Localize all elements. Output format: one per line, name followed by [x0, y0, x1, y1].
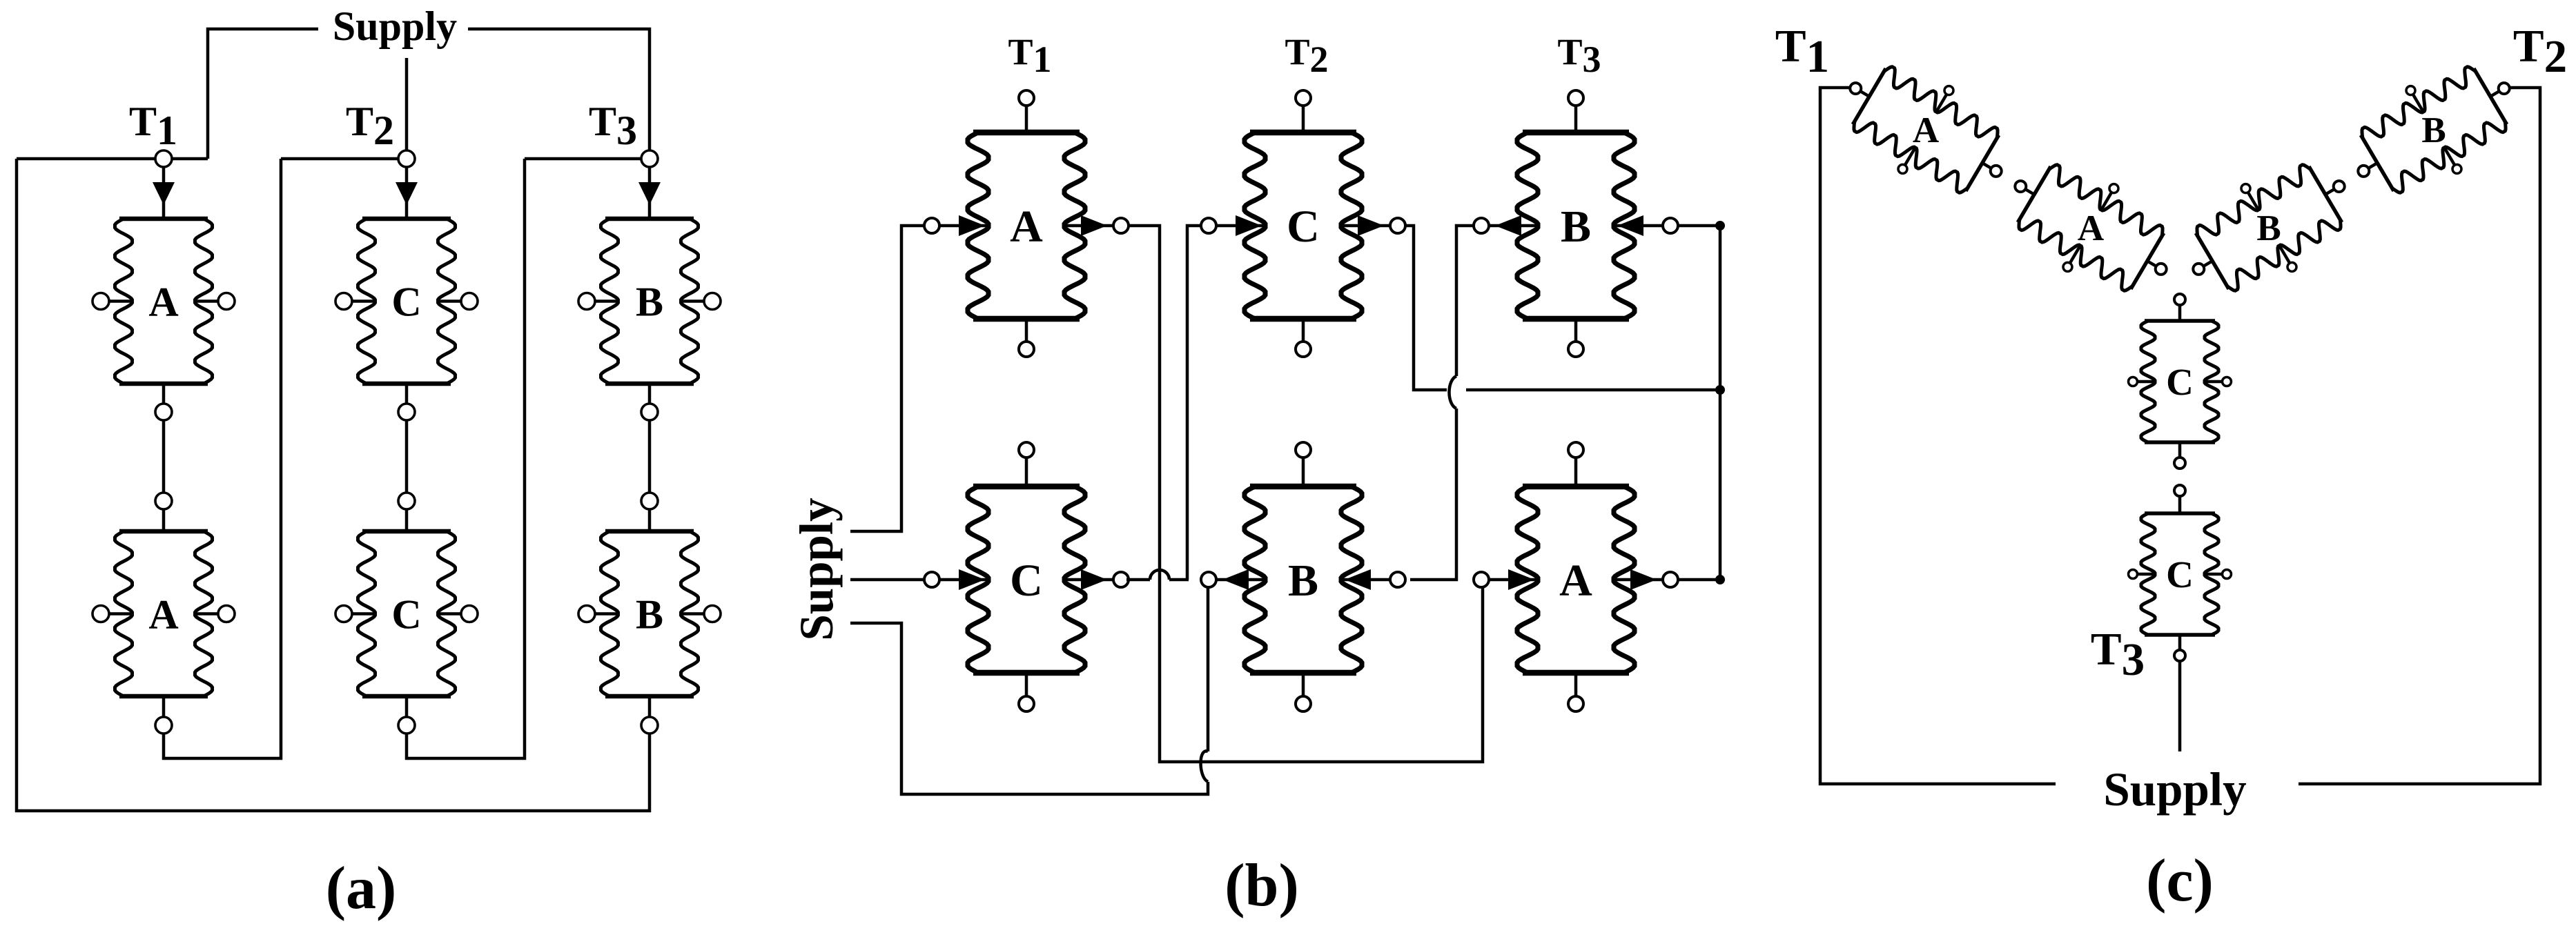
stub above bottom coil (b) col2	[1302, 457, 1305, 486]
winding A lower (a)	[119, 529, 208, 534]
junction dot middle (b)	[1715, 385, 1725, 395]
stub T1 (b)	[1025, 106, 1028, 132]
winding B top (b)	[1523, 130, 1629, 136]
node circle upper (a) col1	[155, 404, 172, 420]
svg-text:A: A	[148, 279, 178, 325]
svg-text:C: C	[1287, 201, 1320, 252]
winding C lower (c)	[2145, 511, 2215, 515]
wire T1 corner (c)	[1820, 88, 2056, 784]
node circle upper (a) col3	[641, 404, 658, 420]
winding C upper (a)	[362, 217, 451, 222]
wire supply-left to T1 drop (a)	[208, 29, 318, 159]
wire C-bottom right tap to riser (b)	[1126, 578, 1150, 582]
winding B inner (c)	[2182, 154, 2355, 302]
stub above C2 (c)	[2178, 496, 2182, 513]
open circle above bottom coil (b) col3	[1568, 442, 1583, 457]
svg-text:(c): (c)	[2146, 847, 2214, 914]
arrow T1 (a)	[153, 182, 175, 205]
bottom circle (a) col1	[155, 717, 172, 734]
supply stub bottom (b)	[850, 623, 1208, 794]
winding C lower (a)	[362, 529, 451, 534]
stub above bottom coil (b) col3	[1574, 457, 1578, 486]
supply stub middle (b)	[850, 578, 924, 582]
hop at 2110,565 (b)	[1450, 376, 1457, 409]
wire B-top left down (b)	[1456, 226, 1474, 376]
wire B-bottom left tap riser (b)	[1207, 587, 1210, 751]
node circle lower (a) col2	[398, 493, 415, 509]
central node circle (c)	[2174, 294, 2185, 305]
wire 565 to bus (b)	[1466, 388, 1720, 392]
wire between nodes (a) col3	[648, 420, 652, 493]
wire T3 to coil (a)	[648, 167, 652, 219]
wire T2 to coil (a)	[405, 167, 409, 219]
wire node to coil (a) col2	[405, 509, 409, 531]
winding A upper (a)	[119, 217, 208, 222]
wire col1 bottom to T2 (a)	[164, 159, 281, 758]
wire A-bottom right to bus (b)	[1679, 578, 1720, 582]
svg-text:A: A	[148, 592, 178, 638]
terminal T3 circle (a)	[641, 150, 658, 167]
arrow T3 (a)	[638, 182, 661, 205]
open circle below top coil (b) col3	[1568, 342, 1583, 357]
bottom circle (a) col3	[641, 717, 658, 734]
svg-text:C: C	[1010, 555, 1043, 606]
winding C upper (c)	[2145, 319, 2215, 323]
svg-text:B: B	[1288, 555, 1318, 606]
wire coil to bottom circle (a) col3	[648, 696, 652, 717]
wire between nodes (a) col2	[405, 420, 409, 493]
winding B bottom (b)	[1250, 484, 1356, 490]
svg-text:B: B	[1561, 201, 1591, 252]
bottom circle (a) col2	[398, 717, 415, 734]
winding A inner (c)	[2004, 154, 2177, 302]
open circle above bottom coil (b) col2	[1296, 442, 1311, 457]
wire node to coil (a) col3	[648, 509, 652, 531]
junction dot top (b)	[1715, 221, 1725, 230]
stub below bottom coil (b) col2	[1302, 673, 1305, 696]
svg-text:C: C	[391, 279, 421, 325]
hop at 1750,1104 (b)	[1201, 751, 1209, 782]
svg-text:C: C	[2166, 361, 2194, 403]
wire C-top left down (b)	[1187, 226, 1201, 580]
winding B lower (a)	[605, 529, 694, 534]
winding A outer (c)	[1839, 56, 2012, 204]
stub below top coil (b) col1	[1025, 319, 1028, 342]
wire col2 bottom to T3 (a)	[407, 159, 525, 758]
winding C bottom (b)	[973, 484, 1080, 490]
wire supply to T2 drop (a)	[405, 58, 409, 152]
stub to C1 (c)	[2178, 305, 2182, 321]
open circle below top coil (b) col1	[1019, 342, 1034, 357]
node circle lower (a) col3	[641, 493, 658, 509]
stub below C1 (c)	[2178, 442, 2182, 457]
open circle bottom (b) col3	[1568, 696, 1583, 711]
svg-text:Supply: Supply	[333, 3, 457, 49]
wire col3 bottom to T1 (a)	[17, 159, 650, 811]
terminal T1 circle (b)	[1019, 90, 1034, 106]
terminal T1 circle (a)	[155, 150, 172, 167]
node T1 line (a)	[17, 157, 208, 161]
stub T3 (b)	[1574, 106, 1578, 132]
open circle bottom (b) col2	[1296, 696, 1311, 711]
stub above bottom coil (b) col1	[1025, 457, 1028, 486]
svg-text:A: A	[1010, 201, 1043, 252]
wire node to coil (a) col1	[162, 509, 166, 531]
wire B-top right to bus (b)	[1678, 224, 1720, 228]
terminal T2 circle (b)	[1296, 90, 1311, 106]
wire coil to bottom circle (a) col1	[162, 696, 166, 717]
svg-text:Supply: Supply	[2103, 763, 2246, 816]
svg-text:C: C	[391, 592, 421, 638]
winding B outer (c)	[2347, 56, 2520, 204]
svg-text:A: A	[1559, 555, 1592, 606]
wire coil to node (a) col1	[162, 384, 166, 404]
svg-text:B: B	[636, 279, 663, 325]
circle above C2 (c)	[2174, 485, 2185, 496]
node circle lower (a) col1	[155, 493, 172, 509]
svg-text:A: A	[2078, 208, 2104, 248]
wire C-top right to bus (b)	[1405, 226, 1447, 390]
wire T3 down (c)	[2178, 661, 2182, 751]
svg-text:B: B	[2256, 208, 2281, 248]
node T2 line (a)	[281, 157, 407, 161]
wire coil to node (a) col3	[648, 384, 652, 404]
wire supply-right to T3 drop (a)	[468, 29, 650, 152]
open circle below top coil (b) col2	[1296, 342, 1311, 357]
svg-text:(b): (b)	[1224, 852, 1299, 919]
terminal T3 circle (b)	[1568, 90, 1583, 106]
open circle above bottom coil (b) col1	[1019, 442, 1034, 457]
hop at 1680,840 (b)	[1150, 570, 1169, 580]
wire coil to node (a) col2	[405, 384, 409, 404]
winding A bottom (b)	[1523, 484, 1629, 490]
wire between nodes (a) col1	[162, 420, 166, 493]
node circle upper (a) col2	[398, 404, 415, 420]
open circle bottom (b) col1	[1019, 696, 1034, 711]
svg-text:A: A	[1913, 110, 1939, 150]
stub below bottom coil (b) col1	[1025, 673, 1028, 696]
svg-text:Supply: Supply	[790, 498, 843, 640]
arrow T2 (a)	[396, 182, 418, 205]
winding A top (b)	[973, 130, 1080, 136]
wire hop exit to 1720 riser (b)	[1169, 578, 1189, 582]
svg-text:B: B	[2421, 110, 2446, 150]
junction dot bottom (b)	[1715, 575, 1725, 584]
wire B-top left down lower part (b)	[1410, 409, 1456, 580]
circle below C1 (c)	[2174, 457, 2185, 469]
svg-text:(a): (a)	[326, 855, 397, 922]
stub T2 (b)	[1302, 106, 1305, 132]
stub below bottom coil (b) col3	[1574, 673, 1578, 696]
supply stub top (b)	[850, 226, 924, 531]
stub below top coil (b) col2	[1302, 319, 1305, 342]
wire coil to bottom circle (a) col2	[405, 696, 409, 717]
wire T1 to coil (a)	[162, 167, 166, 219]
svg-text:C: C	[2166, 553, 2194, 596]
wire A-top right to A-bottom left (b)	[1129, 226, 1483, 762]
circle below C2 (c)	[2174, 650, 2185, 661]
winding B upper (a)	[605, 217, 694, 222]
winding C top (b)	[1250, 130, 1356, 136]
svg-text:B: B	[636, 592, 663, 638]
terminal T2 circle (a)	[398, 150, 415, 167]
bus vertical (b)	[1719, 226, 1722, 580]
node T3 line (a)	[525, 157, 650, 161]
wire T2 corner (c)	[2299, 88, 2540, 784]
stub below C2 (c)	[2178, 635, 2182, 650]
stub below top coil (b) col3	[1574, 319, 1578, 342]
